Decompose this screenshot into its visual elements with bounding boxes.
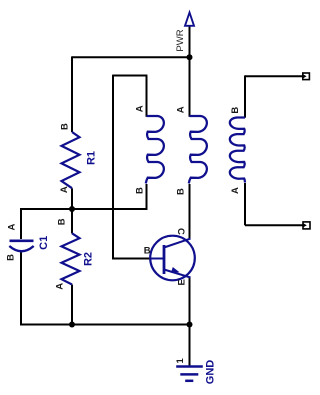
svg-text:A: A bbox=[54, 283, 65, 290]
svg-text:GND: GND bbox=[205, 360, 217, 385]
svg-text:E: E bbox=[176, 279, 187, 285]
svg-text:C: C bbox=[175, 228, 186, 235]
wire secondary bottom horizontal to port bbox=[245, 224, 303, 226]
wire secondary top horizontal to port bbox=[245, 75, 303, 77]
wire emitter down bbox=[189, 277, 191, 325]
wire L3 bottom stub bbox=[244, 183, 246, 225]
inductor L3 secondary winding bbox=[230, 118, 245, 183]
wire middle horizontal from C1 to L1 bbox=[21, 208, 147, 210]
wire bottom horizontal ground rail bbox=[20, 324, 190, 326]
svg-text:A: A bbox=[135, 105, 146, 112]
port terminal bottom right bbox=[303, 222, 310, 229]
ground symbol GND bbox=[176, 367, 203, 381]
wire C1 top stub bbox=[20, 208, 22, 239]
svg-text:1: 1 bbox=[175, 358, 186, 364]
resistor R1 bbox=[62, 132, 98, 188]
wire inner loop left vertical bbox=[112, 75, 114, 259]
wire L1 bottom stub bbox=[146, 184, 148, 210]
power symbol arrow PWR bbox=[185, 13, 194, 26]
wire top horizontal from R1 to PWR node bbox=[72, 56, 190, 58]
svg-text:B: B bbox=[59, 123, 70, 130]
wire inner loop top horizontal bbox=[113, 75, 147, 77]
resistor R2 bbox=[62, 233, 95, 284]
svg-text:A: A bbox=[6, 224, 17, 231]
wire L1 top stub bbox=[146, 76, 148, 117]
svg-text:A: A bbox=[59, 186, 70, 193]
wire to ground symbol bbox=[189, 325, 191, 367]
wire L3 top stub bbox=[244, 75, 246, 117]
svg-text:A: A bbox=[230, 187, 241, 194]
svg-text:B: B bbox=[144, 245, 151, 256]
svg-text:R1: R1 bbox=[86, 151, 98, 165]
wire between R1 and R2 bbox=[71, 188, 73, 233]
junction node emitter at ground rail bbox=[187, 322, 193, 328]
wire transistor base horizontal bbox=[112, 258, 152, 260]
svg-text:B: B bbox=[57, 218, 68, 225]
wire L2 top stub bbox=[189, 57, 191, 117]
port terminal top right bbox=[303, 73, 310, 80]
wire PWR stub bbox=[189, 26, 191, 58]
svg-text:A: A bbox=[175, 106, 186, 113]
inductor L2 primary winding right bbox=[189, 116, 207, 183]
svg-text:PWR: PWR bbox=[175, 29, 186, 51]
svg-text:C1: C1 bbox=[38, 236, 50, 250]
wire C1 bottom stub bbox=[20, 252, 22, 325]
inductor L1 primary winding left bbox=[146, 116, 164, 183]
transistor Q1 NPN bbox=[150, 236, 195, 281]
svg-text:B: B bbox=[134, 187, 145, 194]
wire R1 top stub bbox=[71, 56, 73, 132]
svg-text:R2: R2 bbox=[83, 252, 95, 266]
svg-text:B: B bbox=[6, 254, 17, 261]
wire R2 bottom stub bbox=[71, 285, 73, 325]
junction node PWR at top rail bbox=[187, 54, 193, 60]
junction node R1/R2/middle wire bbox=[69, 206, 75, 212]
wire L2 bottom stub to collector bbox=[189, 184, 191, 239]
svg-text:B: B bbox=[230, 107, 241, 114]
svg-text:B: B bbox=[175, 188, 186, 195]
junction node R2 at ground rail bbox=[69, 322, 75, 328]
capacitor C1 bbox=[9, 236, 50, 251]
